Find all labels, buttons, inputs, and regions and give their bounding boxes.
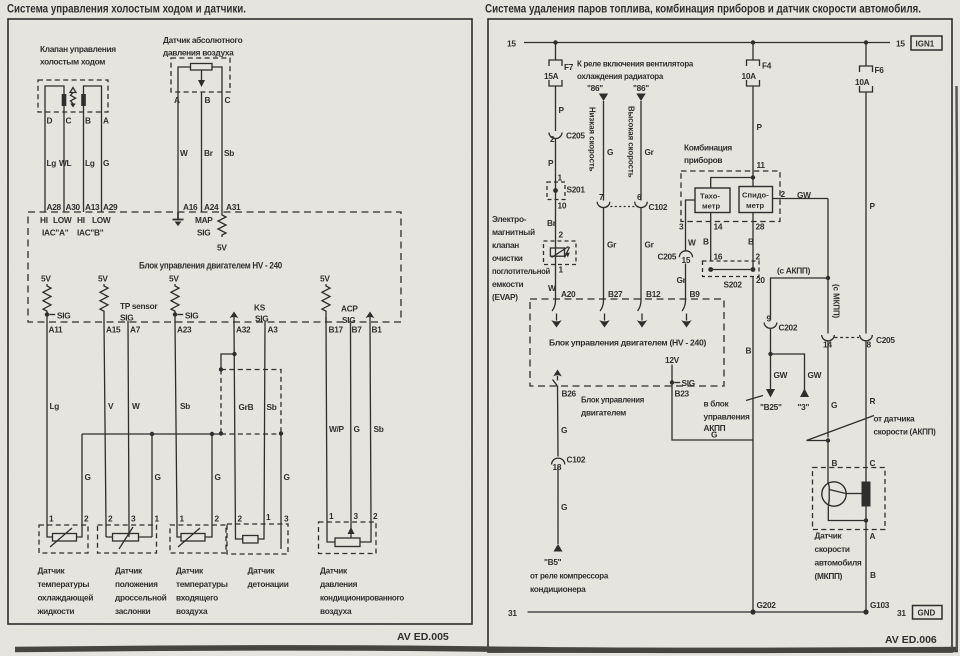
bus drop to TPS pin1 bbox=[151, 434, 153, 537]
node VSS B leader bbox=[826, 438, 830, 442]
ground at B27 bbox=[600, 299, 603, 311]
wire A23 stub bbox=[174, 315, 176, 323]
cluster node bbox=[751, 175, 755, 179]
wire C to A31 bbox=[221, 92, 223, 212]
arrow B25 (down) bbox=[766, 389, 775, 398]
shield drain elbow bbox=[221, 354, 235, 370]
off-page arrow B5 bbox=[554, 544, 563, 552]
wire A32 to KS pin2 shield junction bbox=[234, 322, 243, 539]
EVAP valve box (dashed) bbox=[544, 241, 577, 265]
TPS potentiometer bbox=[113, 534, 139, 542]
wire A15 to TPS pin2 bbox=[104, 322, 106, 537]
wire B7 stub bbox=[350, 323, 352, 326]
IAT thermistor bbox=[181, 534, 205, 542]
ground at A16 bbox=[173, 212, 184, 220]
KS shield box (dashed) bbox=[221, 370, 281, 434]
GND box bbox=[913, 606, 943, 620]
tach pin14 wire bbox=[710, 213, 712, 262]
S202 internal link bbox=[711, 269, 753, 271]
wire S201 to EVAP valve bbox=[555, 208, 557, 241]
wire C205-15 to B9 bbox=[685, 264, 687, 300]
right panel frame bbox=[488, 19, 952, 652]
pin B26 arrow up bbox=[557, 376, 559, 381]
arrow up at A32 bbox=[233, 317, 235, 323]
wire C205-2 to S201 bbox=[555, 139, 557, 182]
connector C102 pin7 bbox=[597, 202, 610, 208]
IGN1 box bbox=[911, 36, 942, 50]
MAP potentiometer body bbox=[191, 64, 213, 71]
IAC coil winding on C bbox=[62, 94, 67, 106]
speedo pin2 wire bbox=[773, 198, 829, 200]
engine ECU box (dashed) bbox=[530, 299, 724, 386]
node G103 bbox=[863, 609, 868, 614]
wire D to A28 bbox=[44, 112, 46, 212]
wire C102-18 to B5 arrow bbox=[557, 467, 559, 545]
wire B23 to ground bus G bbox=[672, 386, 753, 440]
pullup resistor A15 bbox=[100, 284, 108, 323]
wire A11 to CTS pin1 bbox=[47, 322, 53, 537]
wire node to tachometer bbox=[711, 178, 753, 189]
wire A to A16 bbox=[177, 92, 179, 212]
wire C205-8 to VSS C bbox=[865, 341, 867, 468]
wire B1 to ACP pin2 bbox=[360, 322, 371, 542]
IAC valve box (dashed) bbox=[38, 80, 108, 112]
vehicle speed sensor box (dashed) bbox=[813, 468, 886, 530]
wire A to A29 bbox=[101, 112, 103, 212]
bus node TPS bbox=[150, 432, 154, 436]
pullup resistor B17 bbox=[322, 284, 330, 323]
leader from AT speed sensor bbox=[807, 416, 875, 441]
node GW split bbox=[768, 352, 772, 356]
arrow 3 (up) bbox=[800, 389, 809, 398]
connector C205 pin15 bbox=[679, 251, 692, 257]
wire C into bar bbox=[865, 468, 867, 521]
connector C102 pin6 bbox=[635, 202, 648, 208]
wire A11 stub bbox=[46, 315, 48, 323]
connector C205 pin14 bbox=[822, 335, 835, 341]
bus node KS pin3 bbox=[279, 431, 283, 435]
bus 15 bbox=[524, 42, 890, 44]
off-page arrow fan low bbox=[599, 94, 608, 102]
wire A to G103 bbox=[865, 521, 867, 613]
connector C202 pin9 bbox=[764, 323, 777, 329]
wire EVAP to A20 bbox=[555, 265, 557, 300]
EVAP valve wire through bbox=[555, 241, 557, 265]
bus node IAT bbox=[210, 432, 214, 436]
wire C to A30 bbox=[63, 112, 65, 212]
IAC coil loop D-C bbox=[45, 86, 64, 112]
wire B to A24 bbox=[201, 92, 203, 212]
arrow up at B1 bbox=[369, 317, 371, 323]
ACP potentiometer bbox=[335, 538, 360, 547]
AC pressure sensor box (dashed) bbox=[319, 522, 377, 554]
MAP wiper arrow bbox=[201, 70, 203, 80]
MAP right lead bbox=[212, 67, 222, 92]
leader to B25 arrow bbox=[746, 396, 763, 401]
IAC coil winding on B bbox=[81, 94, 86, 106]
SIG node A11 bbox=[45, 312, 49, 316]
KS piezo resistor bbox=[243, 536, 258, 544]
fuse F6 10A bbox=[860, 66, 873, 92]
VSS transistor Q bbox=[827, 468, 829, 484]
connector C205 pin2 bbox=[549, 133, 562, 139]
wire 12V to B23 node bbox=[671, 365, 673, 387]
VSS emitter path bbox=[828, 507, 866, 521]
ECU box HV-240 (dashed) bbox=[28, 212, 401, 322]
node G202 bbox=[750, 609, 755, 614]
SIG node A23 bbox=[173, 312, 177, 316]
ground bus G bbox=[82, 433, 221, 435]
S201 wire and node bbox=[555, 182, 557, 208]
wire to B25 arrow bbox=[770, 354, 772, 389]
cluster box (dashed) bbox=[681, 171, 780, 222]
fuse F7 15A bbox=[549, 60, 562, 86]
ACP wiper arrow bbox=[350, 527, 352, 538]
bus node KS shield bbox=[219, 431, 223, 435]
wire A7 to TPS pin3 bbox=[128, 322, 129, 537]
wire C205-14 to VSS B bbox=[827, 441, 829, 468]
wire F6 to C205-8 bbox=[865, 92, 867, 334]
C102 dotted link bbox=[606, 206, 638, 208]
bus drop to IAT pin2 bbox=[205, 434, 213, 537]
wire B26 to C102-18 bbox=[557, 386, 560, 457]
pullup resistor A23 bbox=[171, 284, 179, 315]
wire F4 to cluster pin11 bbox=[752, 86, 754, 178]
node AKPP branch bbox=[826, 276, 830, 280]
connector C205 pin8 bbox=[860, 335, 873, 341]
VSS hall element bar bbox=[862, 482, 871, 507]
node emitter-collector junction bbox=[864, 518, 868, 522]
wire bus to F4 bbox=[752, 43, 754, 61]
splice S201 box (dashed) bbox=[547, 182, 565, 200]
connector C102 pin18 bbox=[552, 458, 565, 464]
off-page arrow fan high bbox=[636, 94, 645, 102]
MAP left lead bbox=[178, 67, 191, 92]
bottom scan band bbox=[15, 648, 958, 651]
VSS collector link bbox=[846, 493, 862, 495]
pullup resistor A11 bbox=[43, 284, 51, 315]
left panel frame bbox=[8, 19, 472, 624]
wire A3 stub bbox=[264, 321, 266, 324]
wire C102-6 to B12 bbox=[640, 208, 642, 299]
speedometer box bbox=[739, 187, 773, 213]
C205 dashed link bbox=[835, 337, 860, 339]
wire C102-7 to B27 bbox=[603, 208, 605, 299]
wire fan low to C102-7 bbox=[603, 101, 605, 201]
coolant temp sensor box (dashed) bbox=[39, 525, 88, 553]
wire speedo GW down MKPP bbox=[827, 199, 829, 334]
ground at A20 bbox=[552, 299, 555, 311]
knock sensor box (dashed) bbox=[227, 524, 288, 554]
wire bus to F7 bbox=[555, 43, 557, 61]
node F6 bbox=[864, 40, 868, 44]
bus drop to KS pin3 bbox=[280, 434, 282, 549]
intake air temp sensor box (dashed) bbox=[170, 525, 226, 553]
wire B to A13 bbox=[83, 112, 85, 212]
IAC coil loop B-A bbox=[84, 86, 102, 112]
wire A7 stub bbox=[127, 321, 129, 323]
resistor to 5V at A31 bbox=[218, 212, 226, 237]
CTS thermistor bbox=[53, 534, 77, 542]
splice S202 box (dashed) bbox=[703, 261, 760, 277]
wire S202-20 down bbox=[752, 277, 754, 441]
node F4 bbox=[751, 40, 755, 44]
wire B7 to ACP pin3 bbox=[350, 326, 353, 527]
wire A23 to IAT pin1 bbox=[175, 322, 181, 537]
branch to C202 bbox=[771, 278, 829, 321]
ground bus 31 bbox=[528, 611, 867, 613]
ground at B12 bbox=[638, 299, 641, 311]
scan edge right streak bbox=[955, 86, 958, 650]
IAC double arrow symbol bbox=[70, 88, 76, 104]
tach pin3 wire bbox=[686, 200, 696, 229]
speedo pin28 wire bbox=[752, 213, 754, 270]
throttle position sensor box (dashed) bbox=[98, 525, 157, 553]
wire A3 to KS pin1 bbox=[258, 322, 265, 539]
tachometer box bbox=[695, 188, 730, 213]
fuse F4 10A bbox=[747, 60, 760, 86]
MAP sensor box (dashed) bbox=[171, 58, 230, 92]
ground at B9 bbox=[682, 299, 685, 311]
wire C202 down GW bbox=[770, 328, 772, 354]
branch to 3 arrow bbox=[771, 354, 805, 396]
wire node to speedometer bbox=[752, 178, 754, 187]
wire B17 to ACP pin1 bbox=[326, 317, 335, 542]
node F7 bbox=[553, 40, 557, 44]
wire fan high to C102-6 bbox=[640, 101, 642, 201]
bus drop to CTS pin2 bbox=[77, 434, 83, 537]
wire bus to F6 bbox=[865, 43, 867, 67]
wire F7 to C205-2 bbox=[555, 86, 557, 131]
EVAP solenoid symbol bbox=[550, 248, 564, 256]
